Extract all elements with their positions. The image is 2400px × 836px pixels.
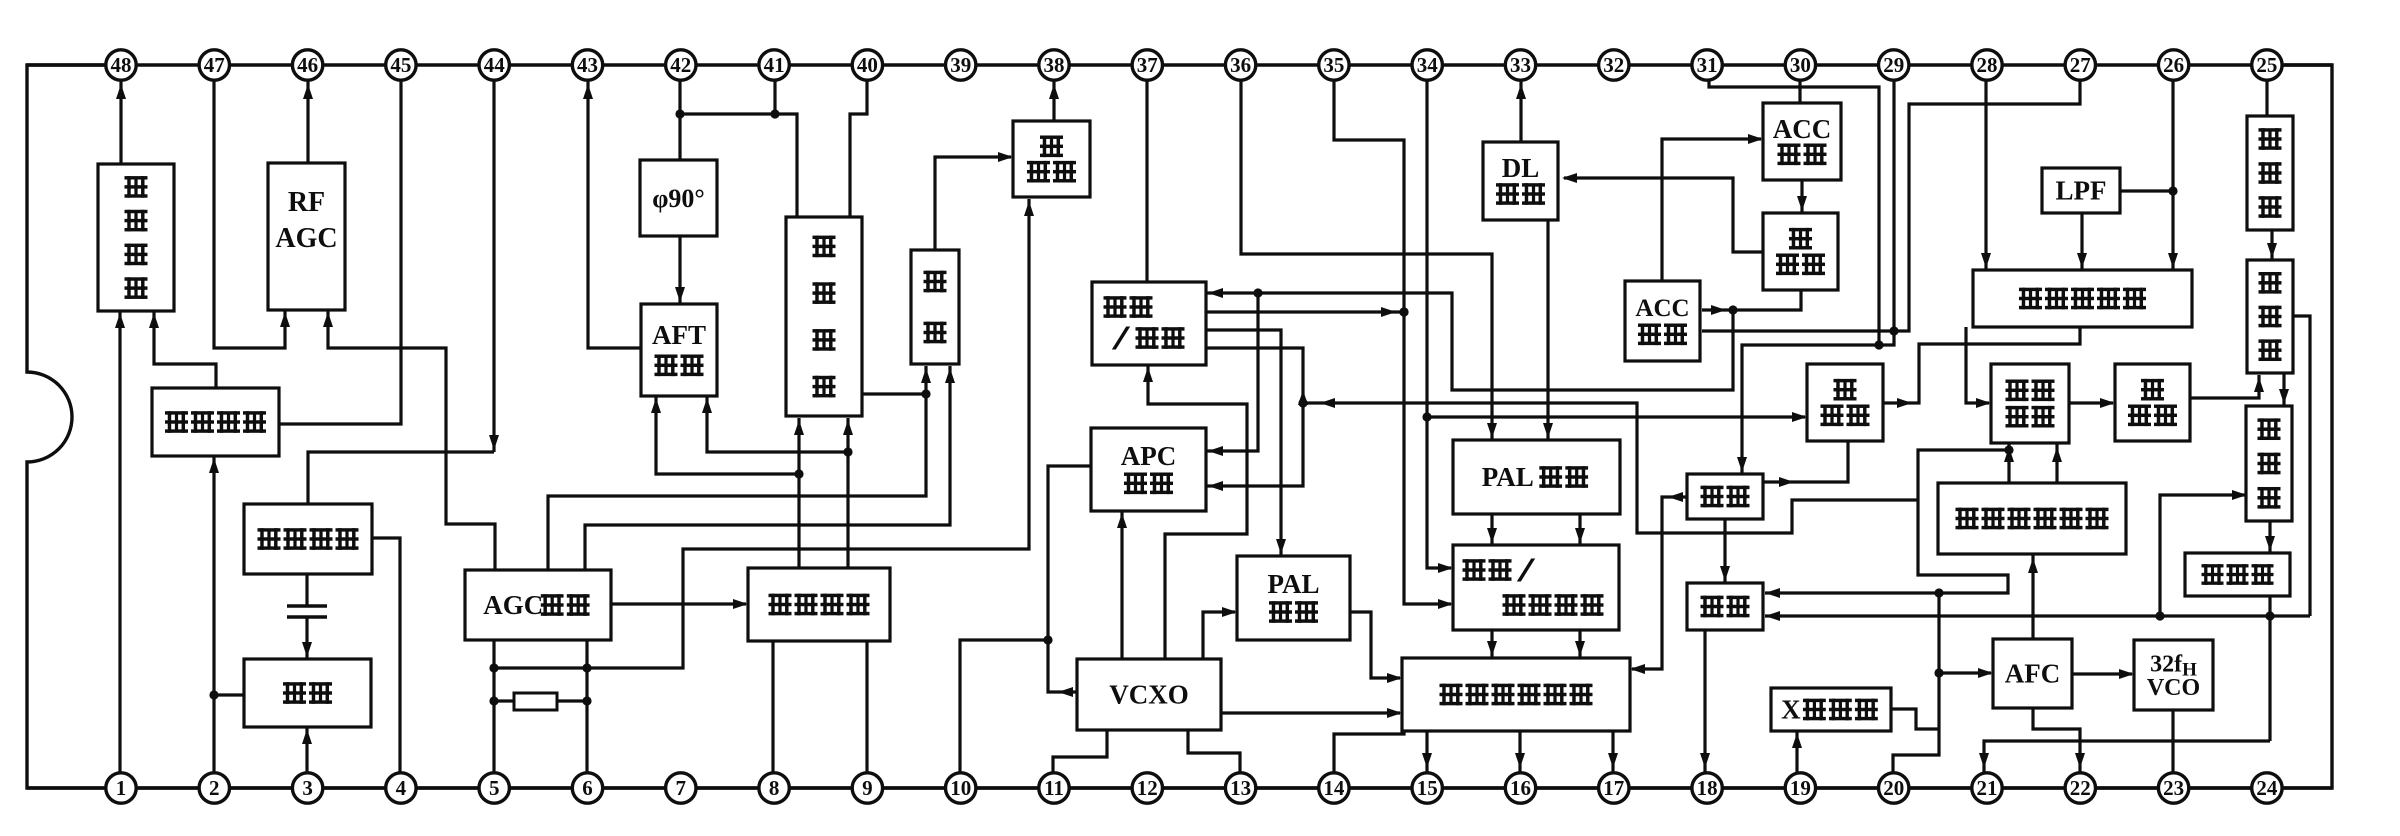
wire sandcastle loop to blanking right-1 [1765, 450, 2009, 598]
pin 9 [852, 773, 882, 803]
wire pin31 to brightness net [1709, 80, 1879, 345]
pin 33 [1505, 50, 1535, 80]
wire pin30 to ACC-amp top [1798, 80, 1801, 103]
pin 2 [199, 773, 229, 803]
wire colour-gate left to DL-amp right [1562, 173, 1762, 252]
pin 46 [292, 50, 322, 80]
pin 17 [1599, 773, 1629, 803]
pin 4 [386, 773, 416, 803]
wire PAL-matrix bottom to chroma-control top-1 [1487, 514, 1497, 545]
wire pin37 to colour-killer top [1145, 80, 1148, 282]
svg-text:4: 4 [396, 776, 407, 800]
block 视频检波 (video detector) [786, 217, 862, 416]
wire contrast output to sharpness-control bottom [1883, 327, 2080, 408]
svg-text:37: 37 [1137, 53, 1158, 77]
pin 23 [2158, 773, 2188, 803]
svg-text:25: 25 [2256, 53, 2277, 77]
svg-text:31: 31 [1697, 53, 1718, 77]
wire ACC-detector out2 / pin29 / pin27 node [1702, 80, 2080, 336]
svg-text:APC: APC [1121, 441, 1177, 471]
pin 43 [572, 50, 602, 80]
wire AGC-detector right to picture-IF left [611, 599, 748, 609]
pin 29 [1879, 50, 1909, 80]
svg-text:AGC: AGC [275, 223, 337, 254]
pin 6 [572, 773, 602, 803]
pin 27 [2065, 50, 2095, 80]
pin 15 [1412, 773, 1442, 803]
block φ90° [640, 160, 717, 236]
svg-text:35: 35 [1323, 53, 1344, 77]
svg-text:26: 26 [2163, 53, 2184, 77]
block 单色/色度控制 (mono/chroma control) [1453, 545, 1619, 630]
wire field-drive bottom to field-divider top [2267, 230, 2277, 260]
wire sound-IF bottom to coupling cap [305, 574, 308, 605]
pin 42 [666, 50, 696, 80]
pin 21 [1972, 773, 2002, 803]
pin 44 [479, 50, 509, 80]
pin 40 [852, 50, 882, 80]
wire 32fH-VCO bottom to pin23 [2171, 710, 2174, 774]
wire picture-IF top-2 to video-detector bottom-right [843, 418, 853, 568]
block PAL开关 (PAL switch) [1237, 556, 1350, 640]
wire pin35 riser to chroma-control left-2 [1334, 80, 1453, 609]
wire demod-matrix bottom to pin15 [1422, 731, 1432, 774]
wire brightness-control bottom to blanking top [1720, 519, 1730, 583]
pin 31 [1692, 50, 1722, 80]
svg-text:47: 47 [204, 53, 225, 77]
block 场积分 (field integrator) [2115, 364, 2190, 441]
block 鉴频 (FM detector) [244, 659, 371, 727]
svg-text:27: 27 [2070, 53, 2091, 77]
wire AFC bottom to pin22 [2033, 708, 2085, 774]
wire pin28 to sharpness-control top [1981, 80, 1991, 270]
svg-text:AFC: AFC [2005, 659, 2061, 689]
wire APC left loop to VCXO left [1043, 466, 1091, 697]
wire picture-IF bottom to pin8 [771, 641, 774, 774]
wire video tap to AFT-detector bottom-left [651, 396, 799, 474]
svg-text:PAL: PAL [1482, 462, 1534, 492]
svg-text:40: 40 [857, 53, 878, 77]
wire pin34 luminance column [1422, 80, 1453, 573]
wire line-divider bottom to line-drive top [2265, 521, 2275, 553]
wire chroma-control bottom to demod-matrix top-2 [1575, 630, 1585, 658]
wire line pulse rail to pin21 [1979, 741, 2270, 774]
wire VCXO top to PAL-switch left [1203, 607, 1237, 659]
pin 3 [292, 773, 322, 803]
svg-text:VCO: VCO [2147, 675, 2200, 701]
block 亮控 (brightness control) [1687, 474, 1763, 519]
wire video-detector right output [862, 392, 926, 395]
block 消色/识别 (colour killer / ident) [1092, 282, 1206, 365]
wire pin10 to APC/VCXO node [960, 640, 1048, 774]
pin 18 [1692, 773, 1722, 803]
svg-text:14: 14 [1323, 776, 1345, 800]
pin 28 [1972, 50, 2002, 80]
pin 13 [1225, 773, 1255, 803]
block 消隐 (blanking) [1687, 583, 1763, 630]
block AFC [1993, 639, 2072, 708]
wire ACC-detector top to ACC-amp left [1662, 134, 1763, 281]
svg-text:48: 48 [111, 53, 132, 77]
block 预视放 (pre video amplifier) [1013, 121, 1090, 197]
wire LPF right to pin26 column [2120, 189, 2173, 192]
wire DL-amp bottom to PAL-matrix top-right [1543, 220, 1553, 440]
wire PAL-switch right to demod-matrix left-1 [1350, 612, 1402, 683]
top pin bus wire [27, 63, 2332, 66]
block 门脉冲发生器 (gate pulse generator) [1938, 483, 2126, 554]
svg-text:16: 16 [1510, 776, 1531, 800]
svg-text:33: 33 [1510, 53, 1531, 77]
block DL放大 (delay-line amplifier) [1483, 142, 1558, 220]
wire luminance line to contrast left [1427, 412, 1807, 422]
svg-text:RF: RF [288, 187, 325, 218]
block 行激励 (line drive) [2185, 553, 2290, 596]
wire pin25 to field-drive top [2265, 80, 2268, 116]
wire chroma-control bottom to demod-matrix top-1 [1487, 630, 1497, 658]
svg-text:21: 21 [1977, 776, 1998, 800]
pin 14 [1319, 773, 1349, 803]
svg-text:LPF: LPF [2056, 176, 2107, 206]
pin 8 [759, 773, 789, 803]
svg-text:29: 29 [1883, 53, 1904, 77]
wire phi90 bottom to AFT-detector top [675, 236, 685, 304]
pin 38 [1039, 50, 1069, 80]
wire AGC-detector top-1 to RF-AGC bottom-right [323, 310, 495, 570]
bottom pin bus wire [27, 786, 2332, 789]
block 电子音量 (electronic volume) [152, 388, 279, 456]
wire gate-pulse long line to right section [1303, 398, 1918, 533]
wire pin45 to electronic-volume right [279, 80, 401, 424]
wire X-ray-protect right to sandcastle column [1891, 709, 1939, 729]
wire coupling cap to FM-detector top [302, 618, 312, 659]
wire field-integrator right to field-divider bottom [2190, 375, 2264, 398]
svg-text:18: 18 [1697, 776, 1718, 800]
svg-text:1: 1 [116, 776, 127, 800]
wire gate-pulse-gen top to sync-separator bottom-2 [2052, 443, 2062, 483]
block 清晰度控制 (sharpness control) [1973, 270, 2192, 327]
block PAL矩阵 (PAL matrix) [1453, 440, 1620, 514]
svg-text:44: 44 [484, 53, 506, 77]
svg-text:22: 22 [2070, 776, 2091, 800]
svg-text:28: 28 [1977, 53, 1998, 77]
wire pin19 to X-ray-protect bottom [1792, 731, 1802, 774]
wire FM-detector left to pin2 column [214, 693, 244, 696]
wire sharpness-control to sync-separator left [1966, 327, 1991, 408]
wire demod-matrix bottom to pin16 [1515, 731, 1525, 774]
pin 5 [479, 773, 509, 803]
wire pin14 to demod-matrix bottom-left [1334, 731, 1404, 774]
wire killer line3 to PAL-switch top [1206, 330, 1286, 556]
svg-text:42: 42 [670, 53, 691, 77]
pin 24 [2252, 773, 2282, 803]
wire pin2 to electronic-volume bottom (tap to FM-det) [209, 456, 219, 774]
pin 12 [1132, 773, 1162, 803]
svg-text:46: 46 [297, 53, 318, 77]
wire RF-AGC top to pin46 [303, 80, 313, 163]
wire pin40 to video-detector top-right [850, 80, 867, 217]
svg-text:7: 7 [676, 776, 687, 800]
wire video tap to AFT-detector bottom-right [702, 396, 848, 452]
block 音频放大 (audio amplifier) [98, 164, 174, 311]
pin 16 [1505, 773, 1535, 803]
wire pin44 to sound-IF top [308, 80, 499, 504]
pin 19 [1785, 773, 1815, 803]
wire flyback bus riser to line-divider left [2160, 490, 2247, 616]
wire field-divider right to flyback bus [2293, 316, 2310, 616]
pin 20 [1879, 773, 1909, 803]
svg-text:6: 6 [582, 776, 593, 800]
wire AFC right to 32fH-VCO left [2073, 669, 2134, 679]
pin 7 [666, 773, 696, 803]
wire picture-IF top-1 to video-detector bottom-left [794, 418, 804, 568]
block ACC放大 (ACC amplifier) [1763, 103, 1841, 180]
wire volume-block top to audio-amp bottom-right [149, 311, 216, 388]
svg-text:10: 10 [950, 776, 971, 800]
svg-text:45: 45 [390, 53, 411, 77]
svg-text:38: 38 [1044, 53, 1065, 77]
svg-text:AGC: AGC [483, 590, 543, 620]
wire sandcastle column to AFC left [1893, 593, 1944, 774]
svg-text:8: 8 [769, 776, 780, 800]
pin 1 [106, 773, 136, 803]
block 消噪 (noise canceller) [911, 250, 959, 364]
svg-text:15: 15 [1417, 776, 1438, 800]
resistor R1 (AGC filter) [494, 693, 587, 710]
pin 10 [946, 773, 976, 803]
wire PAL-matrix bottom to chroma-control top-2 [1575, 514, 1585, 545]
wire VCXO top to APC-detector bottom [1117, 511, 1127, 659]
wire pins41/42 to video-detector top-left [680, 109, 797, 217]
wire AFT-detector left to pin43 [583, 80, 641, 348]
pin 48 [106, 50, 136, 80]
wire killer line4 gate-pulse feed [1206, 348, 1308, 491]
wire pin42 to phi90 top [675, 80, 684, 160]
wire blanking bottom to pin18 [1700, 630, 1710, 774]
wire AGC-detector bottom-left to pin5 [489, 640, 498, 774]
wire noise-canceller top to pre-video-amp left [935, 152, 1013, 250]
block 场分频 (field divider) [2247, 260, 2293, 373]
wire picture-IF bottom to pin9 [865, 641, 868, 774]
svg-text:φ90°: φ90° [652, 184, 705, 213]
block 同步分离 (sync separator) [1991, 364, 2069, 443]
wire brightness-control left to demod-matrix right [1630, 492, 1687, 674]
wire pin1 to audio-amp bottom-left [115, 311, 125, 774]
svg-text:9: 9 [862, 776, 873, 800]
wire AFC top to gate-pulse-gen bottom [2028, 554, 2038, 639]
svg-text:PAL: PAL [1268, 569, 1320, 599]
wire DL-amp top to pin33 [1516, 80, 1526, 142]
block ACC检测 (ACC detector) [1625, 281, 1700, 361]
block X线保护 (X-ray protection) [1771, 688, 1891, 731]
wire pin48 to audio-amp top [116, 80, 126, 164]
svg-text:ACC: ACC [1773, 114, 1832, 144]
pin 41 [759, 50, 789, 80]
wire line-drive bottom to pin21 rail [2268, 596, 2271, 741]
wire AGC filter node to pre-video-amp bottom [494, 199, 1034, 668]
block RF AGC [268, 163, 345, 310]
wire pin41 stub [773, 80, 776, 114]
wire AGC-detector bottom-right to pin6 [582, 640, 591, 774]
wire AGC-detector top-3 to noise-canceller bottom-right [585, 366, 955, 570]
svg-text:36: 36 [1230, 53, 1251, 77]
wire brightness-control right to contrast bottom [1763, 441, 1848, 487]
pin 39 [946, 50, 976, 80]
pin 47 [199, 50, 229, 80]
wire LPF bottom to sharpness-control top [2077, 213, 2087, 270]
block 32fH VCO [2134, 640, 2213, 710]
wire VCXO right to demod-matrix left-2 [1221, 708, 1402, 718]
pin 34 [1412, 50, 1442, 80]
wire field-divider bottom to line-divider top [2279, 373, 2289, 406]
block 对比度 (contrast) [1807, 364, 1883, 441]
capacitor C1 (sound IF coupling) [287, 606, 327, 617]
svg-text:17: 17 [1603, 776, 1624, 800]
pin 35 [1319, 50, 1349, 80]
pin 37 [1132, 50, 1162, 80]
svg-text:2: 2 [209, 776, 220, 800]
block 色差解调矩阵 (colour-difference demod matrix) [1402, 658, 1630, 731]
svg-text:34: 34 [1417, 53, 1439, 77]
svg-text:39: 39 [950, 53, 971, 77]
block LPF [2042, 168, 2120, 213]
wire sync-separator right to field-integrator left [2069, 398, 2115, 408]
wire ACC-detector out1 to colour-gate bottom [1702, 290, 1801, 315]
block VCXO [1077, 659, 1221, 730]
block 场激励 (field drive) [2247, 116, 2293, 230]
wire node to AFC left input [1939, 668, 1993, 678]
svg-text:12: 12 [1137, 776, 1158, 800]
wire killer line1 to APC net riser [1206, 288, 1733, 390]
wire ACC-amp bottom to colour-gate top [1797, 180, 1807, 213]
pin 45 [386, 50, 416, 80]
wire flyback bus to blanking right-2 [1765, 611, 2310, 621]
wire VCXO top to colour-killer bottom [1143, 365, 1247, 659]
svg-text:41: 41 [764, 53, 785, 77]
svg-text:11: 11 [1044, 776, 1064, 800]
wire sound-IF right to pin4 [372, 538, 400, 774]
svg-text:43: 43 [577, 53, 598, 77]
block AGC检波 (AGC detector) [465, 570, 611, 640]
wire VCXO bottom-right to pin13 [1188, 730, 1240, 774]
svg-text:19: 19 [1790, 776, 1811, 800]
block 伴音中放 (sound IF amplifier) [244, 504, 372, 574]
wire APC right input 1 [1206, 293, 1258, 456]
pin 22 [2065, 773, 2095, 803]
block AFT检波 (AFT detector) [641, 304, 717, 396]
wire pre-video-amp top to pin38 [1049, 80, 1059, 121]
svg-text:ACC: ACC [1635, 295, 1689, 322]
wire pin36 to PAL-matrix top-left [1241, 80, 1497, 440]
block 行分频 (line divider) [2246, 406, 2292, 521]
wire AGC-detector top-2 to noise-canceller bottom-left [548, 366, 931, 570]
svg-text:13: 13 [1230, 776, 1251, 800]
svg-text:5: 5 [489, 776, 500, 800]
wire pin3 to FM-detector bottom [302, 727, 312, 774]
block 色选通 (colour gate) [1763, 213, 1838, 290]
pin 11 [1039, 773, 1069, 803]
svg-text:20: 20 [1883, 776, 1904, 800]
block APC检测 (APC detector) [1091, 428, 1206, 511]
wire demod-matrix bottom to pin17 [1608, 731, 1618, 774]
svg-text:3: 3 [302, 776, 313, 800]
pin 36 [1225, 50, 1255, 80]
wire killer line2 to chroma-control net [1206, 307, 1409, 317]
svg-text:AFT: AFT [652, 320, 706, 350]
wire gate-pulse-gen top to sync-separator bottom-1 [2004, 443, 2014, 483]
svg-text:30: 30 [1790, 53, 1811, 77]
svg-text:32: 32 [1603, 53, 1624, 77]
wire pin26 to sharpness-control top (LPF node) [2168, 80, 2178, 270]
pin 25 [2252, 50, 2282, 80]
svg-text:VCXO: VCXO [1109, 680, 1189, 710]
pin 32 [1599, 50, 1629, 80]
svg-text:X: X [1781, 695, 1801, 725]
pin 30 [1785, 50, 1815, 80]
svg-text:24: 24 [2256, 776, 2278, 800]
pin 26 [2158, 50, 2188, 80]
wire pin29 to brightness-control top [1737, 80, 1894, 474]
block 图像中放 (picture IF amplifier) [748, 568, 890, 641]
wire pin47 to RF-AGC bottom-left [214, 80, 290, 348]
svg-text:DL: DL [1502, 153, 1540, 183]
wire pin11 to VCXO bottom-left [1053, 730, 1107, 774]
svg-text:23: 23 [2163, 776, 2184, 800]
